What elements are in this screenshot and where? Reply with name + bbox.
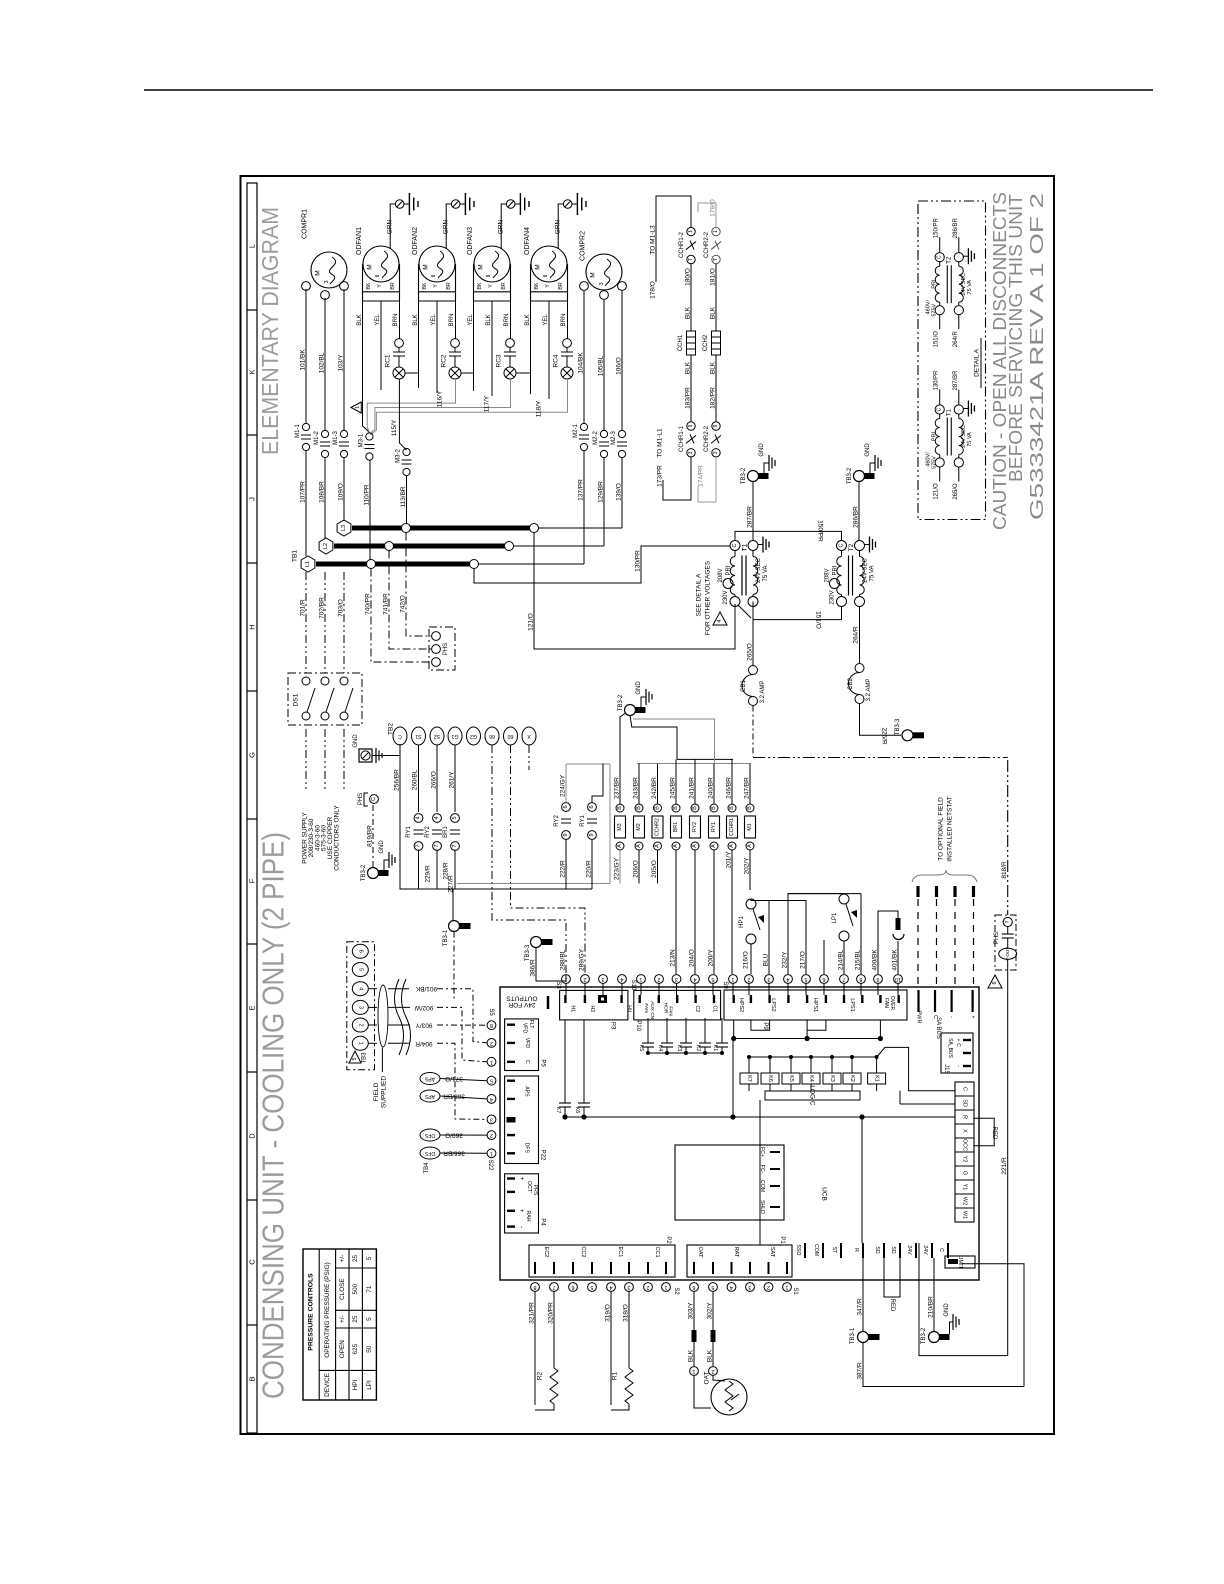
svg-text:222/R: 222/R <box>560 860 567 878</box>
svg-text:S5: S5 <box>488 1008 494 1016</box>
capacitor K4 <box>666 1018 668 1043</box>
svg-text:FIELD: FIELD <box>373 1082 380 1101</box>
fan GRN wire <box>558 204 563 249</box>
svg-text:T1: T1 <box>946 408 952 416</box>
svg-text:240/BR: 240/BR <box>708 777 715 799</box>
svg-text:DFS: DFS <box>524 1143 530 1154</box>
wire LP1 top link <box>788 894 844 974</box>
contact M3-2 <box>403 448 410 455</box>
coil M3 terminal A <box>616 842 624 850</box>
S9 pin 3 <box>765 975 774 984</box>
svg-text:247/BR: 247/BR <box>744 777 751 799</box>
RC unit RC4 <box>563 339 572 348</box>
wire S9-6 stub <box>823 940 825 974</box>
svg-text:BLK: BLK <box>707 1349 714 1362</box>
TB2 terminal 60 <box>504 727 518 745</box>
PHS pin L2 <box>432 645 441 654</box>
svg-text:BLK: BLK <box>710 306 717 319</box>
svg-text:BK: BK <box>422 282 428 289</box>
svg-text:B: B <box>673 806 679 810</box>
svg-text:M2: M2 <box>636 823 642 830</box>
wire 201/Y <box>731 850 733 974</box>
svg-text:6: 6 <box>563 805 569 808</box>
T2 core <box>848 556 850 596</box>
svg-text:3: 3 <box>324 280 330 283</box>
svg-text:PRS: PRS <box>532 1185 538 1196</box>
cable tie ellipse <box>378 985 388 1047</box>
svg-text:4: 4 <box>434 816 440 819</box>
svg-text:741/BR: 741/BR <box>383 593 390 615</box>
svg-text:LPS2: LPS2 <box>770 998 776 1011</box>
connector P2 <box>529 1245 675 1277</box>
svg-text:818/R: 818/R <box>1001 861 1008 879</box>
svg-text:+: + <box>970 1015 976 1018</box>
svg-text:4: 4 <box>693 976 696 982</box>
svg-text:P5: P5 <box>540 1059 546 1067</box>
svg-text:3.2 AMP: 3.2 AMP <box>866 679 872 702</box>
svg-text:901/BK: 901/BK <box>415 985 437 992</box>
svg-text:24V SEC: 24V SEC <box>863 557 869 582</box>
svg-text:25: 25 <box>352 1315 359 1323</box>
svg-text:229/R: 229/R <box>425 865 432 883</box>
motor ODFAN3 <box>474 246 510 282</box>
svg-text:819/BR: 819/BR <box>367 825 374 847</box>
svg-text:1: 1 <box>357 1042 363 1045</box>
svg-text:1: 1 <box>490 1059 493 1065</box>
svg-text:2: 2 <box>357 1023 363 1026</box>
svg-text:GND: GND <box>353 734 359 748</box>
svg-text:M2-3: M2-3 <box>611 431 617 445</box>
svg-text:386/R: 386/R <box>530 959 537 977</box>
svg-text:287/BR: 287/BR <box>953 370 959 391</box>
T2 secondary bottom terminal <box>855 597 865 607</box>
relay coil RY2 <box>690 816 701 838</box>
detail transformer T2 C terminal <box>935 253 944 262</box>
wire COMPR1 T3 103/Y <box>343 289 345 430</box>
svg-text:3: 3 <box>713 451 719 454</box>
wire COMPR1 T2 102/BL <box>324 298 326 430</box>
svg-text:VFD: VFD <box>522 1023 528 1034</box>
fan lead YEL <box>548 301 550 399</box>
svg-text:M: M <box>423 264 430 269</box>
svg-text:S10: S10 <box>630 980 636 991</box>
svg-text:5: 5 <box>452 816 458 819</box>
wire R cell to 24V bus <box>862 1116 955 1118</box>
wire logic down <box>759 1100 761 1245</box>
svg-text:K6: K6 <box>574 1107 580 1114</box>
svg-text:M: M <box>315 270 322 275</box>
svg-text:4: 4 <box>357 987 363 990</box>
svg-text:TB3-1: TB3-1 <box>443 929 449 946</box>
svg-text:TB3-3: TB3-3 <box>895 718 901 735</box>
fan GRN wire <box>390 204 395 249</box>
field harness wave a <box>395 979 404 1055</box>
terminal strip C SD R X OCC Y2 G Y1 W2 W1 <box>955 1082 974 1222</box>
wire 206/O <box>638 850 640 884</box>
svg-text:TO OPTIONAL FIELD: TO OPTIONAL FIELD <box>938 797 945 861</box>
TB3 terminal 4 <box>352 982 368 996</box>
TB2 terminal 66 <box>485 727 499 745</box>
wire RC1 to ODFAN2 BLK <box>405 372 419 374</box>
RC unit RC3 <box>506 339 515 348</box>
svg-text:FC+: FC+ <box>759 1147 765 1157</box>
field wire below TB3-1 <box>453 932 455 1001</box>
wire 220/R <box>591 840 593 890</box>
pressure switch LP1 <box>839 894 849 904</box>
fan GRN wire <box>446 204 451 249</box>
svg-text:4: 4 <box>730 1284 733 1290</box>
wire LIMIT to TB3-1 loop <box>962 1264 1024 1387</box>
svg-text:+/-: +/- <box>339 1255 346 1263</box>
P9 switch bracket 1 <box>751 1020 770 1030</box>
svg-text:C: C <box>937 407 943 411</box>
svg-text:SA_BUS: SA_BUS <box>947 1038 953 1058</box>
wire 400/BK plug <box>878 911 898 974</box>
wire 129/BR <box>603 458 605 546</box>
wire L2 to 129/BR <box>514 545 605 547</box>
wire 174/PR <box>698 457 716 502</box>
svg-text:CCHR2: CCHR2 <box>655 818 661 836</box>
svg-text:FAN: FAN <box>883 998 889 1008</box>
svg-text:PWR: PWR <box>916 1011 922 1024</box>
svg-text:P1: P1 <box>779 1236 785 1244</box>
wire 216/O HP1 bottom <box>750 944 752 974</box>
contact CCHR2-2 upper <box>712 227 720 235</box>
svg-text:CB1: CB1 <box>741 680 747 692</box>
svg-text:K5: K5 <box>638 1045 644 1052</box>
wire L3 to 139/O <box>539 527 623 529</box>
wire 347/R to TB3-1 <box>862 1258 864 1331</box>
wire 264/R <box>859 607 861 665</box>
svg-text:P22: P22 <box>540 1150 546 1161</box>
svg-text:S2: S2 <box>434 733 440 739</box>
svg-text:APS: APS <box>524 1086 530 1097</box>
wire RC2 to ODFAN3 BLK <box>462 372 474 374</box>
svg-text:7: 7 <box>434 844 440 847</box>
wire T1 primary bottom diagonal <box>738 605 751 618</box>
connector P3 <box>560 990 628 1020</box>
svg-text:CCH1: CCH1 <box>678 334 684 351</box>
zone reference strip <box>247 183 257 1433</box>
contact CCHR2-2 lower <box>712 422 720 430</box>
svg-text:J15: J15 <box>943 1064 949 1074</box>
contact M2-3 <box>618 430 625 437</box>
wire 223/GY <box>619 850 621 884</box>
T1 core <box>741 556 743 596</box>
svg-text:24V: 24V <box>922 1245 928 1255</box>
svg-text:BLK: BLK <box>685 306 692 319</box>
T1 primary winding <box>734 551 736 557</box>
RC3 crossed terminal <box>504 367 516 379</box>
svg-text:PRESSURE CONTROLS: PRESSURE CONTROLS <box>308 1273 315 1351</box>
wire 137/PR <box>583 451 585 564</box>
field wire 702/BR <box>324 572 326 673</box>
svg-text:1: 1 <box>731 976 734 982</box>
fan lead BRN <box>455 301 457 339</box>
svg-text:1: 1 <box>355 406 361 409</box>
gray control bus from TB3-1 node <box>457 883 610 885</box>
wire 205/O <box>657 850 659 884</box>
svg-text:A: A <box>692 844 698 848</box>
svg-text:201/Y: 201/Y <box>726 851 733 869</box>
svg-text:TB3-2: TB3-2 <box>921 1327 927 1344</box>
contact M1-3 <box>340 430 347 437</box>
TB3-2 ground <box>384 860 389 870</box>
svg-text:8: 8 <box>859 976 862 982</box>
svg-text:S22: S22 <box>487 1160 493 1171</box>
svg-text:75 VA: 75 VA <box>870 566 876 582</box>
logic input bus <box>749 1056 877 1058</box>
wire 286/BR <box>858 482 860 542</box>
contact RY1 coil side <box>588 803 597 812</box>
svg-text:R: R <box>853 1248 859 1252</box>
wire COMPR1 T1 101/BK <box>305 289 307 423</box>
relay coil CCHR2 <box>652 816 663 838</box>
wire TO M1-L3 178/O <box>656 196 691 282</box>
contact M3-1 <box>366 433 373 440</box>
svg-text:OAT: OAT <box>704 1372 711 1385</box>
wire BLK 183/PR <box>690 355 692 422</box>
svg-text:215/BL: 215/BL <box>855 949 862 970</box>
svg-text:TB4: TB4 <box>424 1162 430 1174</box>
svg-text:223/GY: 223/GY <box>614 857 621 880</box>
svg-text:Y: Y <box>545 284 551 288</box>
motor ODFAN1 <box>363 246 399 282</box>
wire PHS 221/R to 24V loop <box>919 1243 1008 1356</box>
node line at 889 <box>455 888 592 890</box>
svg-text:108/BR: 108/BR <box>319 481 326 503</box>
svg-text:-: - <box>949 1016 955 1018</box>
terminal TB3-2 <box>854 471 865 482</box>
capacitor K1 <box>721 1018 723 1043</box>
wire 260/BL <box>418 745 420 812</box>
svg-text:OCC: OCC <box>962 1139 968 1151</box>
wire GND to TB2-C <box>372 744 400 756</box>
svg-text:M1: M1 <box>747 823 753 830</box>
svg-text:400/BK: 400/BK <box>872 949 879 971</box>
svg-text:AUX CN·: AUX CN· <box>649 1001 655 1021</box>
svg-text:HV: HV <box>626 1005 632 1013</box>
svg-text:T: T <box>688 258 694 261</box>
logic key K4 <box>810 1057 812 1073</box>
logic key K6 <box>769 1057 771 1073</box>
warning triangle 4 <box>713 612 727 625</box>
TB3 oval tails <box>368 988 377 990</box>
wire 386/R <box>536 948 566 982</box>
svg-text:24V FOR: 24V FOR <box>508 1001 535 1008</box>
svg-text:5: 5 <box>711 976 714 982</box>
svg-text:3: 3 <box>490 1116 493 1122</box>
capacitor K2 <box>704 1018 706 1043</box>
svg-text:320/PR: 320/PR <box>548 1302 555 1324</box>
svg-text:YEL: YEL <box>431 314 437 326</box>
svg-text:174/PR: 174/PR <box>698 465 705 487</box>
svg-text:150/PR: 150/PR <box>817 520 824 542</box>
connector P22 <box>505 1076 539 1164</box>
svg-text:1: 1 <box>490 1150 493 1156</box>
S9 pin 8 <box>857 975 866 984</box>
TB3 terminal 6 <box>352 944 368 958</box>
svg-text:TB3-2: TB3-2 <box>361 864 367 881</box>
netstat brace <box>912 870 977 882</box>
coil CCHR1 terminal B <box>728 804 736 812</box>
svg-text:101/BK: 101/BK <box>300 349 307 371</box>
svg-text:CCHR1-2: CCHR1-2 <box>679 231 685 258</box>
svg-text:T2: T2 <box>848 543 855 551</box>
svg-text:151/O: 151/O <box>934 331 940 348</box>
svg-text:A: A <box>673 844 679 848</box>
T1 primary 208V tap <box>723 579 733 589</box>
PHS Y-OUT terminal <box>999 948 1017 959</box>
svg-text:G2: G2 <box>470 733 477 739</box>
svg-text:C: C <box>937 255 943 259</box>
svg-text:SUPPLIED: SUPPLIED <box>381 1076 388 1108</box>
svg-text:245/BR: 245/BR <box>670 777 677 799</box>
svg-text:213/N: 213/N <box>670 949 677 967</box>
svg-text:H: H <box>248 624 257 629</box>
circuit breaker CB2 <box>855 664 864 673</box>
svg-text:3: 3 <box>675 976 678 982</box>
svg-text:B: B <box>636 806 642 810</box>
svg-text:CC1: CC1 <box>654 1246 660 1257</box>
svg-text:202/Y: 202/Y <box>744 857 751 875</box>
wire 116/Y <box>367 379 455 433</box>
svg-text:RY2: RY2 <box>554 815 560 827</box>
phase sensor PHS field box <box>995 915 1016 970</box>
TB3 terminal 2 <box>352 1018 368 1032</box>
svg-text:M: M <box>478 264 485 269</box>
svg-text:CCHR1: CCHR1 <box>729 818 735 836</box>
contact RY2 <box>433 814 442 823</box>
wire 173/PR TO M1-L1 <box>663 457 691 500</box>
svg-text:214/BL: 214/BL <box>838 949 845 970</box>
svg-text:6: 6 <box>589 805 595 808</box>
svg-text:220/R: 220/R <box>586 860 593 878</box>
wire 226/R to TB3-3 <box>860 704 902 736</box>
svg-text:ST: ST <box>831 1247 837 1254</box>
terminal TB3-3 mid <box>531 937 542 948</box>
svg-text:4: 4 <box>786 976 789 982</box>
wire C cell feed <box>909 1082 955 1091</box>
svg-text:L2: L2 <box>323 543 329 549</box>
svg-text:GND: GND <box>379 840 385 854</box>
svg-text:GRN: GRN <box>443 219 450 234</box>
svg-text:4: 4 <box>717 619 723 622</box>
wire COMPR2 T3 106/O <box>621 291 623 430</box>
svg-text:Y: Y <box>488 284 494 288</box>
svg-text:P2: P2 <box>665 1236 671 1244</box>
svg-text:OUTPUTS: OUTPUTS <box>506 995 538 1002</box>
terminal TB3-2 coil feed <box>625 705 636 716</box>
fan lead YEL <box>491 301 493 396</box>
svg-text:347/R: 347/R <box>857 1298 864 1316</box>
terminal TB4 APS b <box>420 1090 440 1102</box>
svg-text:740/PR: 740/PR <box>365 593 372 615</box>
svg-text:BR1: BR1 <box>443 826 449 838</box>
wire 115/Y RC1 to M3-2 <box>399 379 406 450</box>
svg-text:M3-2: M3-2 <box>396 449 402 463</box>
svg-text:221/R: 221/R <box>1001 1157 1008 1175</box>
svg-text:260/BL: 260/BL <box>412 769 419 790</box>
svg-text:-: - <box>518 1226 524 1228</box>
svg-text:G: G <box>962 1171 968 1175</box>
svg-text:246/BR: 246/BR <box>726 777 733 799</box>
limit switch box <box>945 1256 975 1268</box>
svg-text:1: 1 <box>664 1284 667 1290</box>
wire 200/Y <box>713 850 715 974</box>
wire 204/O <box>694 850 696 974</box>
svg-text:RED: RED <box>889 1299 895 1312</box>
svg-text:L3: L3 <box>341 525 347 531</box>
svg-text:3: 3 <box>748 1284 751 1290</box>
netstat field conductor <box>953 886 956 897</box>
svg-text:OVER: OVER <box>889 996 895 1011</box>
svg-text:110/PR: 110/PR <box>364 484 371 506</box>
svg-text:371/O: 371/O <box>445 1075 463 1082</box>
svg-text:K2: K2 <box>695 1045 701 1052</box>
ground symbol <box>460 203 465 205</box>
wire 110/PR M3-1 to L1 <box>369 460 371 561</box>
svg-text:286/BR: 286/BR <box>953 218 959 239</box>
T2 secondary winding <box>859 551 861 557</box>
svg-text:1: 1 <box>639 976 642 982</box>
DS1 switch pole <box>302 677 310 685</box>
TB3-2 ground <box>870 463 875 473</box>
svg-text:LPI: LPI <box>366 1380 373 1390</box>
svg-text:RC4: RC4 <box>553 354 560 367</box>
wire bus to R pin <box>861 1117 863 1243</box>
svg-text:243/BR: 243/BR <box>633 777 640 799</box>
COMPR2 terminal T2 <box>600 291 609 300</box>
svg-text:APS: APS <box>424 1076 435 1082</box>
RC1 crossed terminal <box>393 367 405 379</box>
S10 pin 5 <box>709 975 718 984</box>
svg-text:9: 9 <box>713 424 719 427</box>
PHS Y terminal <box>1003 917 1012 926</box>
svg-text:24V: 24V <box>906 1245 912 1255</box>
svg-text:210/BR: 210/BR <box>928 1296 935 1318</box>
S22 pin 4 <box>487 1095 496 1104</box>
svg-text:104/BK: 104/BK <box>578 352 585 374</box>
RC unit RC1 <box>395 339 404 348</box>
svg-text:ODFAN2: ODFAN2 <box>412 227 419 255</box>
svg-text:TB1: TB1 <box>292 550 299 562</box>
svg-text:K2: K2 <box>849 1075 855 1082</box>
S9 pin 4 <box>784 975 793 984</box>
COMPR1 terminal T3 <box>340 282 349 291</box>
PHS C terminal <box>370 795 379 804</box>
svg-text:10: 10 <box>895 976 901 982</box>
logic key K1 <box>876 1057 878 1073</box>
T1 secondary bottom terminal <box>748 597 758 607</box>
svg-text:PRI: PRI <box>833 565 839 575</box>
svg-text:CC2: CC2 <box>580 1246 586 1257</box>
svg-text:5: 5 <box>490 1078 493 1084</box>
black coil bus <box>677 758 733 760</box>
wire 228/R <box>436 850 438 889</box>
svg-text:TB3-2: TB3-2 <box>618 694 624 711</box>
svg-text:COM: COM <box>759 1180 765 1192</box>
svg-text:RAT: RAT <box>733 1247 739 1258</box>
svg-text:LOGIC: LOGIC <box>809 1085 816 1106</box>
ground screw terminal <box>563 200 572 209</box>
S5 pin 2 <box>487 1039 496 1048</box>
svg-text:B: B <box>729 806 735 810</box>
svg-text:500: 500 <box>352 1283 359 1294</box>
svg-text:CCH2: CCH2 <box>703 334 709 351</box>
svg-text:226/R: 226/R <box>881 727 888 745</box>
wire SD cell feed <box>900 1103 955 1105</box>
